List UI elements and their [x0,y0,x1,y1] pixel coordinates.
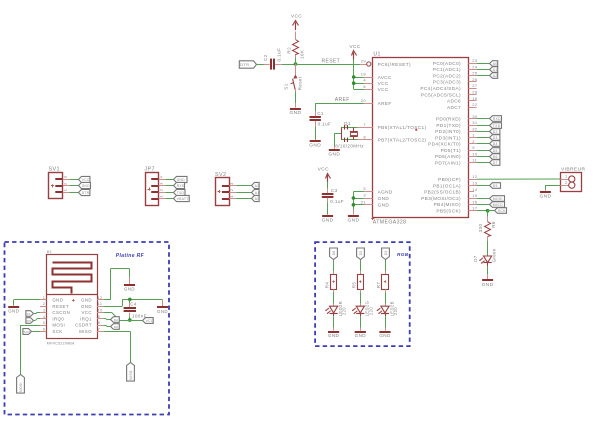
svg-text:TXD: TXD [493,124,501,128]
svg-text:18: 18 [361,72,367,77]
svg-text:D6: D6 [493,155,498,159]
svg-text:D9: D9 [27,319,32,323]
svg-text:A1: A1 [255,191,260,195]
svg-text:C4: C4 [130,301,137,306]
svg-text:R4: R4 [325,282,330,289]
svg-text:PC5(ADC5/SCL): PC5(ADC5/SCL) [421,92,461,97]
svg-text:SCK: SCK [52,329,62,334]
svg-text:PB5(SCK): PB5(SCK) [436,209,461,214]
svg-text:12: 12 [98,296,103,300]
svg-text:PB7(XTAL2/TOSC2): PB7(XTAL2/TOSC2) [378,138,427,143]
svg-text:MISO: MISO [493,203,503,207]
svg-text:22: 22 [472,102,478,107]
svg-text:CSDRT: CSDRT [75,323,92,328]
svg-text:1: 1 [63,189,68,192]
svg-text:9: 9 [98,315,100,319]
svg-text:PB6(XTAL1/TOSC1): PB6(XTAL1/TOSC1) [378,125,427,130]
svg-text:JP7: JP7 [144,167,154,173]
svg-text:PB3(MOSI/OC2): PB3(MOSI/OC2) [421,196,461,201]
svg-text:PB2(SS/OC1B): PB2(SS/OC1B) [424,190,461,195]
svg-text:RESET: RESET [322,59,341,65]
svg-text:A0: A0 [493,62,498,66]
svg-text:R7: R7 [376,282,381,289]
svg-text:PC3(ADC3): PC3(ADC3) [433,80,461,85]
svg-text:PB0(ICP): PB0(ICP) [438,177,461,182]
svg-text:Reset: Reset [298,76,303,90]
svg-text:GND: GND [322,217,334,223]
svg-text:1: 1 [472,133,475,138]
svg-text:3: 3 [159,182,164,185]
svg-text:VCC: VCC [378,81,389,86]
svg-text:PC2(ADC2): PC2(ADC2) [433,73,461,78]
svg-text:GND: GND [347,217,359,223]
svg-text:4: 4 [43,315,45,319]
svg-text:SCK: SCK [498,209,506,213]
svg-text:VCC: VCC [82,178,90,182]
svg-text:GND: GND [539,194,551,200]
svg-text:DTR: DTR [82,191,90,195]
svg-text:CSCON: CSCON [52,310,70,315]
svg-text:RESET: RESET [52,304,69,309]
svg-text:31: 31 [472,120,478,125]
svg-text:PD3(INT1): PD3(INT1) [435,135,461,140]
svg-text:R2: R2 [287,47,292,54]
svg-text:PD1(TXD): PD1(TXD) [436,123,461,128]
svg-text:27: 27 [472,83,478,88]
svg-text:26: 26 [472,77,478,82]
svg-text:8/16/20MHz: 8/16/20MHz [335,144,364,149]
svg-text:8: 8 [363,134,366,139]
svg-text:D7: D7 [473,255,478,262]
svg-text:GND: GND [355,333,367,338]
svg-text:2: 2 [63,182,68,185]
svg-text:ATMEGA328: ATMEGA328 [373,219,407,225]
svg-text:ADC6: ADC6 [447,99,461,104]
svg-text:1: 1 [159,195,164,198]
svg-text:VCC: VCC [81,310,91,315]
svg-text:1: 1 [43,296,45,300]
svg-text:D6: D6 [332,250,336,255]
svg-text:3: 3 [363,193,366,198]
svg-text:D3: D3 [384,250,388,255]
svg-text:220: 220 [342,307,347,315]
svg-text:A2: A2 [255,184,260,188]
svg-text:D8: D8 [114,325,119,329]
svg-text:1: 1 [565,174,568,179]
svg-text:PD2(INT0): PD2(INT0) [435,129,461,134]
svg-text:RGB: RGB [397,252,409,257]
svg-text:A1: A1 [493,68,498,72]
svg-text:GND: GND [328,152,340,158]
svg-text:3: 3 [43,309,45,313]
svg-text:MOSI: MOSI [493,197,503,201]
svg-text:17: 17 [472,206,478,211]
svg-text:5: 5 [43,321,45,325]
svg-text:GND: GND [379,333,391,338]
svg-text:MOSI: MOSI [52,323,65,328]
svg-text:0.1uF: 0.1uF [277,48,282,62]
svg-text:DTR: DTR [240,62,249,67]
svg-text:D3: D3 [493,136,498,140]
svg-text:D5: D5 [359,250,363,255]
svg-text:220: 220 [393,307,398,315]
svg-text:Platine RF: Platine RF [116,253,145,259]
svg-text:GND: GND [52,298,63,303]
svg-text:SCK: SCK [24,330,31,334]
svg-text:13: 13 [472,181,478,186]
svg-text:3: 3 [229,182,234,185]
svg-text:4: 4 [159,175,164,178]
svg-text:RXD: RXD [493,117,501,121]
svg-text:GND: GND [177,178,186,182]
svg-text:GND: GND [124,287,135,292]
svg-text:A0: A0 [255,197,260,201]
svg-text:1: 1 [229,195,234,198]
svg-text:5: 5 [363,186,366,191]
svg-text:VIBREUR: VIBREUR [561,167,585,173]
svg-text:11: 11 [98,302,103,306]
svg-text:6: 6 [43,327,45,331]
svg-text:IRQ0: IRQ0 [52,316,64,321]
svg-text:D4: D4 [493,142,498,146]
svg-text:10K: 10K [299,49,304,59]
svg-text:MISO: MISO [79,329,92,334]
svg-text:4: 4 [363,78,366,83]
svg-text:PC4(ADC4/SDA): PC4(ADC4/SDA) [420,86,461,91]
svg-text:VCC: VCC [291,14,302,20]
svg-text:ADC7: ADC7 [447,105,461,110]
svg-text:19: 19 [472,96,478,101]
svg-text:32: 32 [472,126,478,131]
svg-text:24: 24 [472,64,478,69]
svg-text:14: 14 [472,187,478,192]
svg-text:23: 23 [472,58,478,63]
svg-text:GND: GND [378,196,390,201]
svg-text:MFRC522IMBA: MFRC522IMBA [47,342,75,346]
svg-text:AREF: AREF [335,97,350,103]
svg-text:C1: C1 [317,111,324,116]
svg-text:R5: R5 [351,282,356,289]
svg-text:11: 11 [472,158,477,163]
svg-text:AGND: AGND [378,189,393,194]
svg-text:SV2: SV2 [215,172,226,178]
svg-text:20: 20 [361,98,367,103]
svg-text:2: 2 [472,139,475,144]
svg-text:3: 3 [63,176,68,179]
svg-text:PD5(T1): PD5(T1) [441,148,461,153]
svg-text:MISO: MISO [129,370,133,380]
svg-text:D7: D7 [493,161,498,165]
svg-text:VCC: VCC [146,319,154,323]
svg-text:TXD: TXD [177,191,185,195]
svg-text:SV1: SV1 [49,166,60,172]
svg-text:GND: GND [482,282,494,288]
svg-text:7: 7 [98,327,100,331]
svg-text:21: 21 [361,199,367,204]
svg-text:Q1: Q1 [344,121,351,127]
svg-text:AREF: AREF [378,101,392,106]
svg-text:IRQ1: IRQ1 [80,316,92,321]
svg-text:PD0(RXD): PD0(RXD) [436,117,461,122]
svg-text:2: 2 [565,180,568,185]
svg-text:PD7(AIN1): PD7(AIN1) [435,160,461,165]
svg-text:9: 9 [472,145,475,150]
svg-text:MOSI: MOSI [19,382,23,392]
svg-text:PB4(MISO): PB4(MISO) [434,202,461,207]
svg-text:25: 25 [472,71,478,76]
svg-text:PC0(ADC0): PC0(ADC0) [433,61,461,66]
svg-text:VCC: VCC [378,87,389,92]
svg-text:PD6(AIN0): PD6(AIN0) [435,154,461,159]
svg-text:GND: GND [378,203,390,208]
svg-text:GND: GND [328,333,340,338]
svg-text:VCC: VCC [318,167,329,173]
svg-text:GND: GND [8,309,19,314]
svg-text:GND: GND [309,143,321,149]
svg-text:10: 10 [472,151,478,156]
svg-text:28: 28 [472,90,478,95]
svg-text:D5: D5 [493,149,498,153]
svg-text:8: 8 [98,321,100,325]
svg-text:15: 15 [472,193,478,198]
svg-text:29: 29 [361,59,367,64]
svg-text:2: 2 [159,189,164,192]
svg-text:D2: D2 [114,318,119,322]
svg-text:330: 330 [478,224,483,233]
svg-text:VBATT: VBATT [177,197,189,201]
svg-text:220: 220 [368,307,373,315]
svg-text:A2: A2 [493,74,498,78]
svg-text:0.1uF: 0.1uF [330,199,344,204]
svg-text:GND: GND [82,184,91,188]
svg-text:6: 6 [363,84,366,89]
svg-text:S1: S1 [283,83,288,89]
svg-text:D2: D2 [493,130,498,134]
svg-text:10: 10 [27,312,31,316]
svg-text:VCC: VCC [349,44,360,50]
svg-text:GND: GND [81,298,92,303]
svg-text:PC6(/RESET): PC6(/RESET) [378,62,411,67]
svg-text:GND: GND [157,309,168,314]
svg-text:D9: D9 [493,184,498,188]
svg-text:GND: GND [289,110,301,116]
svg-text:GND: GND [81,304,92,309]
svg-text:16: 16 [472,199,478,204]
svg-text:12: 12 [472,174,478,179]
svg-text:R6: R6 [491,221,496,228]
svg-text:PD4(XCK/T0): PD4(XCK/T0) [428,142,461,147]
svg-text:M1: M1 [47,250,52,254]
svg-text:PC1(ADC1): PC1(ADC1) [433,67,461,72]
svg-text:PB1(OC1A): PB1(OC1A) [433,183,461,188]
svg-text:C3: C3 [331,188,338,193]
svg-text:7: 7 [363,122,366,127]
svg-text:Green: Green [492,248,497,262]
svg-text:RXD: RXD [177,184,185,188]
svg-text:10: 10 [98,309,103,313]
svg-text:AVCC: AVCC [378,75,392,80]
svg-text:U1: U1 [373,51,380,57]
svg-text:2: 2 [229,189,234,192]
svg-text:2: 2 [43,302,45,306]
svg-text:0.1uF: 0.1uF [318,122,332,127]
svg-text:C2: C2 [263,54,268,61]
